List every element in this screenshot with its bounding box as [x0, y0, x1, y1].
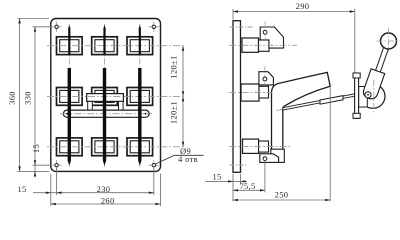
330 arrows: [34, 27, 36, 32]
bottom ext hole right: [153, 168, 155, 195]
link rod: [283, 94, 356, 111]
row centerline 2 side: [229, 92, 272, 94]
hub vertical centerline: [373, 80, 375, 113]
housing leg left: [88, 101, 93, 110]
mounting hole top-left: [52, 22, 62, 33]
ext screw row3: [264, 161, 266, 192]
flange tab bottom: [353, 113, 360, 118]
handle boss: [362, 69, 385, 101]
row1 terminal block: [242, 38, 259, 52]
15 side arrows (outside): [228, 180, 233, 182]
15 vertical arrow bottom (points up to plate bottom from below): [34, 171, 36, 176]
row2 terminal block: [241, 84, 259, 101]
main blade c2: [103, 68, 106, 166]
svg-text:230: 230: [97, 184, 111, 194]
dim 120 line right: [182, 46, 184, 147]
row centerline 2: [47, 95, 186, 97]
svg-text:290: 290: [296, 1, 310, 11]
crossbar centerline overlay: [62, 113, 151, 115]
svg-text:260: 260: [101, 195, 115, 205]
290 arrows: [233, 10, 238, 12]
dim 330 extension top (to hole): [33, 26, 53, 28]
hole callout leader: [155, 155, 204, 164]
dim 15 side line: [206, 180, 248, 182]
svg-text:15: 15: [17, 184, 26, 194]
dim 360 line: [19, 19, 21, 172]
row1 screw centerline: [264, 22, 266, 41]
blade tip c2: [103, 25, 105, 55]
mounting hole top-right: [149, 22, 160, 33]
blade tip c3: [139, 25, 141, 55]
svg-text:250: 250: [275, 190, 289, 200]
dim 250 line: [233, 199, 330, 201]
crossbar centerline: [60, 113, 152, 115]
contact r1c2: [92, 37, 118, 55]
dim 290 line: [233, 11, 355, 13]
hole centerline top side: [230, 26, 254, 28]
flange tab top: [353, 73, 360, 78]
blade tip c1: [68, 25, 70, 55]
dim 360 extension bottom: [18, 170, 50, 172]
ext panel bottom right: [240, 174, 242, 184]
mounting hole bottom-right: [149, 160, 160, 171]
dim 360 extension top: [18, 18, 50, 20]
360 arrows: [18, 19, 20, 24]
row3 small block: [259, 141, 269, 152]
handle ball: [381, 33, 397, 49]
row3 terminal block: [243, 139, 259, 153]
main blade c3: [138, 68, 141, 166]
mounting plate: [51, 19, 161, 172]
dim 330 extension bottom (to hole): [33, 164, 53, 166]
svg-text:120±1: 120±1: [169, 55, 179, 78]
dim 230 / 15 line: [33, 192, 154, 194]
contact r3c1: [57, 138, 83, 156]
flange: [355, 73, 359, 118]
arrows front: [18, 19, 184, 206]
handle shaft: [375, 45, 389, 74]
column centerline 3: [139, 24, 141, 167]
75,5 arrows: [233, 189, 238, 191]
row centerline 1 side: [229, 44, 297, 46]
center drive housing bar: [87, 94, 124, 102]
hub lug: [359, 87, 368, 108]
housing leg right: [119, 101, 124, 110]
crank pin: [365, 92, 371, 98]
crossbar (traverse): [63, 110, 149, 117]
row2 screw centerline: [264, 67, 266, 86]
row3 contact bracket: [260, 154, 279, 163]
ext arm end: [329, 88, 331, 202]
row1 contact bracket: [260, 27, 283, 48]
contact r3c3: [127, 138, 153, 156]
contact r3c2: [92, 138, 118, 156]
row2 contact bracket: [259, 72, 274, 85]
svg-text:120±1: 120±1: [169, 101, 179, 124]
260 arrows: [51, 203, 56, 205]
contact r1c1: [57, 37, 83, 55]
hub circle: [361, 84, 385, 108]
svg-text:75,5: 75,5: [239, 181, 255, 191]
row1 small block: [259, 40, 270, 51]
bottom ext hole left: [56, 168, 58, 195]
dim 260 line: [51, 203, 161, 205]
contact r2c3: [127, 88, 153, 106]
panel 290 extension: [232, 9, 234, 20]
ball vertical centerline: [388, 28, 390, 53]
250 arrows: [233, 199, 238, 201]
panel (plate edge-on): [233, 21, 241, 173]
crossbar pivot right: [145, 113, 147, 115]
column centerline 1: [68, 24, 70, 167]
lever foot: [271, 149, 285, 162]
column centerline 2: [104, 24, 106, 167]
bottom ext plate right: [160, 174, 162, 207]
rod centerline: [276, 93, 371, 111]
contact r1c3: [127, 37, 153, 55]
15 horizontal arrow (points right to plate edge): [46, 192, 51, 194]
row centerline 1: [47, 45, 186, 47]
crossbar pivot left: [66, 113, 68, 115]
main blade c1: [68, 68, 71, 166]
mounting hole bottom-left: [52, 160, 62, 171]
row3 screw: [263, 157, 267, 161]
hole centerline bottom side: [230, 164, 247, 166]
dim 330 line + 15 overrun: [34, 27, 36, 178]
centerline over housing bar: [88, 95, 123, 97]
rod sleeve: [320, 96, 343, 105]
row centerline 3: [47, 146, 186, 148]
ball horizontal centerline: [377, 40, 400, 42]
svg-text:15: 15: [31, 144, 41, 153]
ext panel bottom left: [232, 174, 234, 201]
svg-text:330: 330: [23, 91, 33, 105]
row2 screw: [263, 77, 267, 81]
svg-text:360: 360: [7, 91, 17, 105]
row centerline 3 side: [229, 145, 290, 147]
contact r2c2: [92, 88, 118, 106]
row2 small block: [259, 86, 269, 98]
handle group: [362, 43, 394, 100]
contact r2c1: [57, 88, 83, 106]
120 arrows: [182, 46, 184, 51]
svg-text:4 отв: 4 отв: [178, 154, 198, 164]
bottom ext plate left: [50, 174, 52, 207]
lever (blade arm): [272, 72, 331, 158]
dim 75,5 line: [233, 189, 265, 191]
flange 290 extension: [354, 9, 356, 73]
row1 screw: [263, 30, 267, 34]
230 arrows: [57, 192, 62, 194]
svg-text:15: 15: [212, 172, 221, 182]
